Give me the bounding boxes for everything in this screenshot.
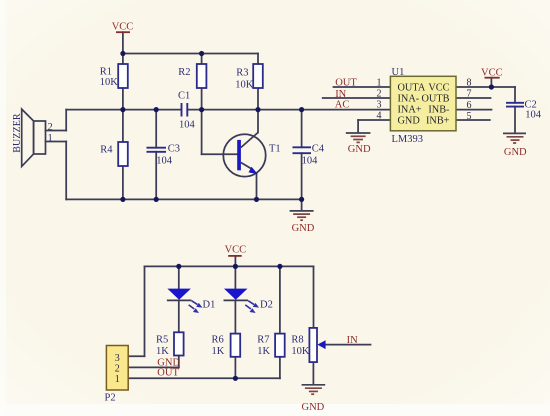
svg-text:1K: 1K (156, 346, 169, 357)
svg-text:1K: 1K (212, 346, 225, 357)
svg-text:R1: R1 (100, 67, 112, 78)
svg-text:8: 8 (467, 77, 472, 88)
svg-text:1: 1 (115, 374, 120, 385)
svg-text:GND: GND (302, 402, 325, 413)
svg-text:3: 3 (377, 100, 382, 111)
svg-text:C4: C4 (312, 144, 325, 155)
svg-text:6: 6 (467, 100, 472, 111)
svg-text:OUT: OUT (157, 368, 179, 379)
svg-text:4: 4 (377, 111, 382, 122)
svg-text:VCC: VCC (225, 245, 247, 256)
svg-text:GND: GND (292, 223, 315, 234)
svg-text:1: 1 (48, 133, 53, 144)
svg-text:R5: R5 (156, 334, 168, 345)
svg-text:C3: C3 (168, 143, 180, 154)
svg-text:P2: P2 (105, 392, 116, 403)
svg-text:R7: R7 (257, 334, 269, 345)
svg-text:R3: R3 (236, 68, 248, 79)
svg-text:GND: GND (504, 147, 527, 158)
svg-text:R8: R8 (291, 334, 303, 345)
svg-text:104: 104 (525, 110, 542, 121)
svg-text:GND: GND (398, 116, 421, 127)
svg-text:2: 2 (115, 363, 120, 374)
svg-text:U1: U1 (392, 67, 405, 78)
svg-text:10K: 10K (291, 346, 310, 357)
svg-text:1K: 1K (257, 346, 270, 357)
svg-text:R2: R2 (178, 67, 190, 78)
svg-text:104: 104 (156, 155, 173, 166)
svg-text:GND: GND (348, 144, 371, 155)
svg-text:R4: R4 (100, 145, 113, 156)
svg-text:AC: AC (335, 100, 350, 111)
svg-text:T1: T1 (269, 144, 281, 155)
svg-text:D1: D1 (203, 300, 216, 311)
svg-text:10K: 10K (235, 80, 254, 91)
svg-text:VCC: VCC (428, 82, 449, 93)
svg-text:LM393: LM393 (392, 134, 424, 145)
svg-text:R6: R6 (212, 334, 224, 345)
svg-text:INB-: INB- (428, 105, 450, 116)
svg-text:2: 2 (48, 122, 53, 133)
svg-text:10K: 10K (100, 77, 119, 88)
svg-text:C1: C1 (178, 91, 190, 102)
svg-text:OUTB: OUTB (421, 93, 449, 104)
svg-text:OUT: OUT (335, 78, 357, 89)
svg-text:5: 5 (467, 111, 472, 122)
svg-text:INA+: INA+ (398, 105, 422, 116)
svg-text:IN: IN (347, 335, 358, 346)
svg-text:3: 3 (115, 353, 120, 364)
svg-text:INB+: INB+ (426, 116, 450, 127)
svg-text:IN: IN (335, 89, 346, 100)
svg-text:BUZZER: BUZZER (12, 113, 23, 153)
svg-text:D2: D2 (260, 300, 273, 311)
svg-text:104: 104 (179, 120, 196, 131)
svg-text:2: 2 (377, 88, 382, 99)
svg-text:GND: GND (157, 357, 180, 368)
svg-text:1: 1 (377, 77, 382, 88)
svg-text:VCC: VCC (112, 21, 134, 32)
svg-text:INA-: INA- (398, 93, 420, 104)
svg-text:7: 7 (467, 88, 472, 99)
svg-text:OUTA: OUTA (398, 82, 426, 93)
svg-text:104: 104 (302, 155, 319, 166)
svg-text:VCC: VCC (481, 68, 503, 79)
